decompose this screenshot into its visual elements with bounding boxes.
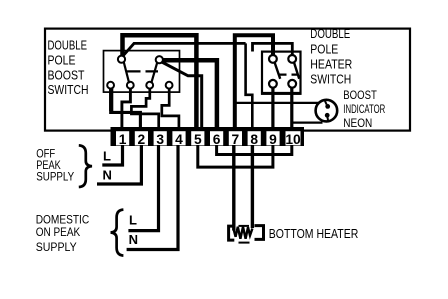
svg-text:POLE: POLE <box>310 42 338 56</box>
svg-text:POLE: POLE <box>48 54 76 68</box>
terminal 6 <box>210 131 223 145</box>
wire: boost L2 contact to terminal 1 <box>122 88 130 128</box>
contact TR <box>288 55 296 63</box>
wire: link terminal 5 to terminal 9 <box>198 145 273 167</box>
terminal 3 <box>154 131 167 145</box>
svg-text:DOUBLE: DOUBLE <box>310 27 350 41</box>
dashed casing bottom <box>239 242 250 244</box>
contact L3 <box>146 82 153 89</box>
wire: heater switch bottom-right down to terminal 10 <box>290 86 293 128</box>
contact BL <box>269 80 277 88</box>
wire: neon upper feed from terminal-7 trunk <box>235 102 319 104</box>
wire: neon lower feed to terminal-10 wire <box>292 121 323 123</box>
svg-text:10: 10 <box>285 132 301 147</box>
terminal 7 <box>229 131 242 145</box>
heater switch link (dashed) <box>279 73 298 75</box>
svg-text:N: N <box>129 232 138 247</box>
double pole heater switch box <box>262 52 301 94</box>
svg-text:NEON: NEON <box>343 116 372 130</box>
svg-text:BOOST: BOOST <box>48 69 85 83</box>
svg-text:BOOST: BOOST <box>343 88 377 102</box>
contact pole2 top <box>156 56 163 63</box>
svg-text:8: 8 <box>250 132 258 147</box>
contact TL <box>269 55 277 63</box>
svg-text:INDICATOR: INDICATOR <box>343 102 385 116</box>
terminal 2 <box>135 131 148 145</box>
brace domestic <box>111 210 124 256</box>
svg-text:L: L <box>129 212 137 227</box>
wire: terminal 1 to off-peak L <box>102 145 122 165</box>
double pole boost switch box <box>104 51 180 93</box>
right bracket <box>255 226 264 240</box>
heater switch blade pole2 <box>294 62 299 78</box>
wire: boost pole1 top to terminal 5 (thick U path) <box>123 35 197 128</box>
boost switch blade pole2 <box>151 63 157 84</box>
wire: terminal 7 down to bottom heater <box>232 145 235 231</box>
svg-text:9: 9 <box>269 132 277 147</box>
wire: heater switch bottom-left down to terminal 9 <box>271 86 274 128</box>
svg-text:7: 7 <box>232 132 240 147</box>
wire: branch from above wire down to terminal 8 <box>246 43 253 128</box>
terminal 5 <box>191 131 204 145</box>
svg-text:4: 4 <box>175 132 183 147</box>
svg-text:1: 1 <box>119 132 127 147</box>
svg-text:SWITCH: SWITCH <box>48 83 89 97</box>
heater switch box thick bottom edge <box>261 92 302 95</box>
wire: terminal 4 to domestic N <box>127 145 178 250</box>
neon electrode bottom <box>325 113 330 118</box>
svg-text:DOUBLE: DOUBLE <box>48 39 88 53</box>
outer enclosure box <box>45 29 410 131</box>
svg-text:L: L <box>103 149 111 164</box>
wire: terminal 3 to domestic L <box>128 145 158 231</box>
wire: second segment to heater switch top-right with stub <box>253 43 293 56</box>
svg-text:SWITCH: SWITCH <box>310 73 351 87</box>
contact L2 <box>127 82 134 89</box>
wire: terminal 7 up and over to heater switch top-left (thick U path) <box>235 35 273 128</box>
wire: boost pole2 diagonal to strip near terminal 5 <box>162 62 202 128</box>
svg-text:N: N <box>103 168 112 183</box>
heater element zigzag <box>234 227 253 239</box>
svg-text:6: 6 <box>213 132 221 147</box>
contact pole1 top <box>118 56 125 63</box>
terminal 8 <box>248 131 261 145</box>
terminal 4 <box>172 131 185 145</box>
svg-text:ON PEAK: ON PEAK <box>36 225 81 239</box>
terminal strip <box>111 127 305 146</box>
boost switch mechanical link (dashed) <box>127 70 159 72</box>
terminal 10 <box>286 131 301 145</box>
boost switch blade pole1 <box>124 62 129 83</box>
svg-text:SUPPLY: SUPPLY <box>36 240 77 254</box>
terminal 9 <box>266 131 279 145</box>
wire: terminal 8 down to bottom heater <box>251 145 254 228</box>
wire: boost L4 contact to terminal 4 <box>162 88 179 128</box>
svg-text:SUPPLY: SUPPLY <box>36 170 74 184</box>
svg-text:BOTTOM HEATER: BOTTOM HEATER <box>269 227 359 241</box>
L1 stem thick part <box>109 88 113 111</box>
terminal 1 <box>116 131 129 145</box>
wire: link terminal 6 to terminal 10 <box>217 145 292 155</box>
wire: boost pole2 top to terminal 6 (thick) <box>161 60 217 128</box>
boost indicator neon lamp <box>316 100 338 122</box>
wire: boost L1 contact to terminal 2 <box>111 88 141 128</box>
wire: boost L3 contact to terminal 3 <box>131 88 158 128</box>
svg-text:2: 2 <box>138 132 146 147</box>
heater switch blade pole1 <box>275 62 281 78</box>
wire: terminal 2 to off-peak N <box>97 145 141 184</box>
dashed casing top <box>239 225 250 227</box>
neon electrode top <box>325 104 330 109</box>
svg-text:3: 3 <box>156 132 164 147</box>
svg-text:HEATER: HEATER <box>310 58 352 72</box>
contact L1 <box>107 82 114 89</box>
left bracket <box>229 226 235 240</box>
contact BR <box>288 80 296 88</box>
brace off peak <box>79 145 92 187</box>
svg-text:5: 5 <box>194 132 202 147</box>
contact L4 <box>166 82 173 89</box>
wire: boost pole1 diagonal branch to heater switch top-right <box>123 43 246 56</box>
